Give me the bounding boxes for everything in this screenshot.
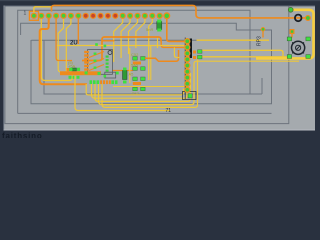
- capacitor C? left vertical part: [123, 71, 128, 80]
- svg-text:71: 71: [166, 108, 172, 114]
- connector J1 pads: [31, 12, 171, 19]
- wire yellow pad17 diagonal: [149, 16, 153, 80]
- orange square pad with stub: [291, 34, 293, 38]
- svg-text:1: 1: [24, 11, 27, 17]
- wire orange caps left horizontal: [112, 70, 133, 72]
- pad end of orange bus: [305, 15, 311, 21]
- ic U2 left pin pads: [84, 51, 89, 71]
- svg-text:2U: 2U: [70, 41, 78, 47]
- pour outline rect B: [21, 23, 272, 104]
- wire orange short seg: [102, 40, 115, 42]
- J7 pads: [185, 39, 190, 93]
- wire yellow hook at J7 left: [174, 48, 179, 58]
- small part outline right of band: [105, 72, 116, 78]
- J7 black bar: [190, 39, 192, 59]
- wires orange weave inside U2: [89, 52, 104, 71]
- small part left of U2: [72, 68, 77, 71]
- resistor R? under pad18: [157, 22, 162, 30]
- canvas background: [4, 6, 316, 131]
- wire orange pad3 big U: [40, 16, 87, 84]
- ic U2 pin1 circle: [108, 51, 112, 55]
- wire orange top bus to right connector: [52, 5, 307, 18]
- pour outline rect C: [44, 40, 262, 94]
- small 4-pin part right of J7: [193, 51, 196, 54]
- bottom pad row of cluster: [90, 80, 118, 84]
- wire yellow pad5 diagonal down U: [58, 16, 64, 72]
- window border frame: [0, 0, 320, 138]
- svg-text:RP3: RP3: [257, 36, 263, 46]
- wire orange pad4 stem: [56, 16, 72, 61]
- wire yellow bracket: [256, 10, 314, 59]
- ic U2 right pin pads: [106, 56, 109, 72]
- svg-text:5A5: 5A5: [131, 63, 139, 68]
- wire orange from caps to J7 hook: [145, 50, 179, 61]
- orange stub with pad: [262, 30, 264, 38]
- wire yellow pad2 down-left U: [41, 16, 72, 81]
- wire L1: [197, 39, 270, 41]
- pad on bracket: [288, 7, 293, 12]
- wire bundle loop4 joins mid yellow L4: [99, 61, 300, 104]
- J7 bottom square pad: [188, 94, 192, 98]
- pads on orange band: [85, 71, 88, 74]
- wire yellow vertical via caps: [129, 48, 131, 83]
- capacitor pads grid: [133, 57, 145, 91]
- buzzer side bars: [293, 42, 304, 54]
- wire lone lower trace: [75, 76, 170, 111]
- wire orange J7 second stub: [161, 41, 184, 47]
- wire bundle loop3: [95, 73, 191, 101]
- wire orange pad7 stem: [77, 16, 79, 44]
- pin1 square marker: [29, 11, 38, 20]
- wire yellow short stub: [157, 38, 159, 48]
- wires yellow pads13-16 diagonals: [114, 16, 145, 62]
- node dots: [95, 43, 98, 46]
- wire L2: [198, 50, 284, 56]
- via black ring: [295, 15, 302, 22]
- keepout rect A: [18, 10, 272, 113]
- buzzer circle: [292, 41, 305, 54]
- wire bundle loop5 joins mid yellow L3: [102, 57, 198, 108]
- buzzer pads: [287, 37, 310, 58]
- wire orange big corner route: [82, 37, 161, 61]
- wire yellow pad6 stub: [66, 16, 71, 72]
- J7 outline: [184, 38, 186, 100]
- board outline rect D: [5, 7, 289, 124]
- wire yellow mid low horizontal: [113, 86, 188, 88]
- svg-text:5nR: 5nR: [146, 27, 153, 32]
- wires yellow caps right verticals: [150, 46, 152, 80]
- wire bundle loop2: [92, 84, 188, 98]
- ic U2 outline: [88, 50, 113, 75]
- svg-text:A5: A5: [129, 72, 135, 77]
- wire yellow pad1 top: [34, 7, 51, 16]
- thick orange band: [60, 71, 101, 75]
- orange link bars: [133, 62, 141, 65]
- wire L3: [198, 56, 291, 58]
- svg-text:+5A: +5A: [68, 63, 76, 68]
- wire bundle loop1: [86, 84, 183, 95]
- wire orange pad19 to J7: [167, 16, 185, 42]
- svg-text:C52: C52: [131, 52, 139, 57]
- wire yellow mid horizontal: [57, 45, 185, 47]
- svg-text:faithsino: faithsino: [2, 131, 43, 138]
